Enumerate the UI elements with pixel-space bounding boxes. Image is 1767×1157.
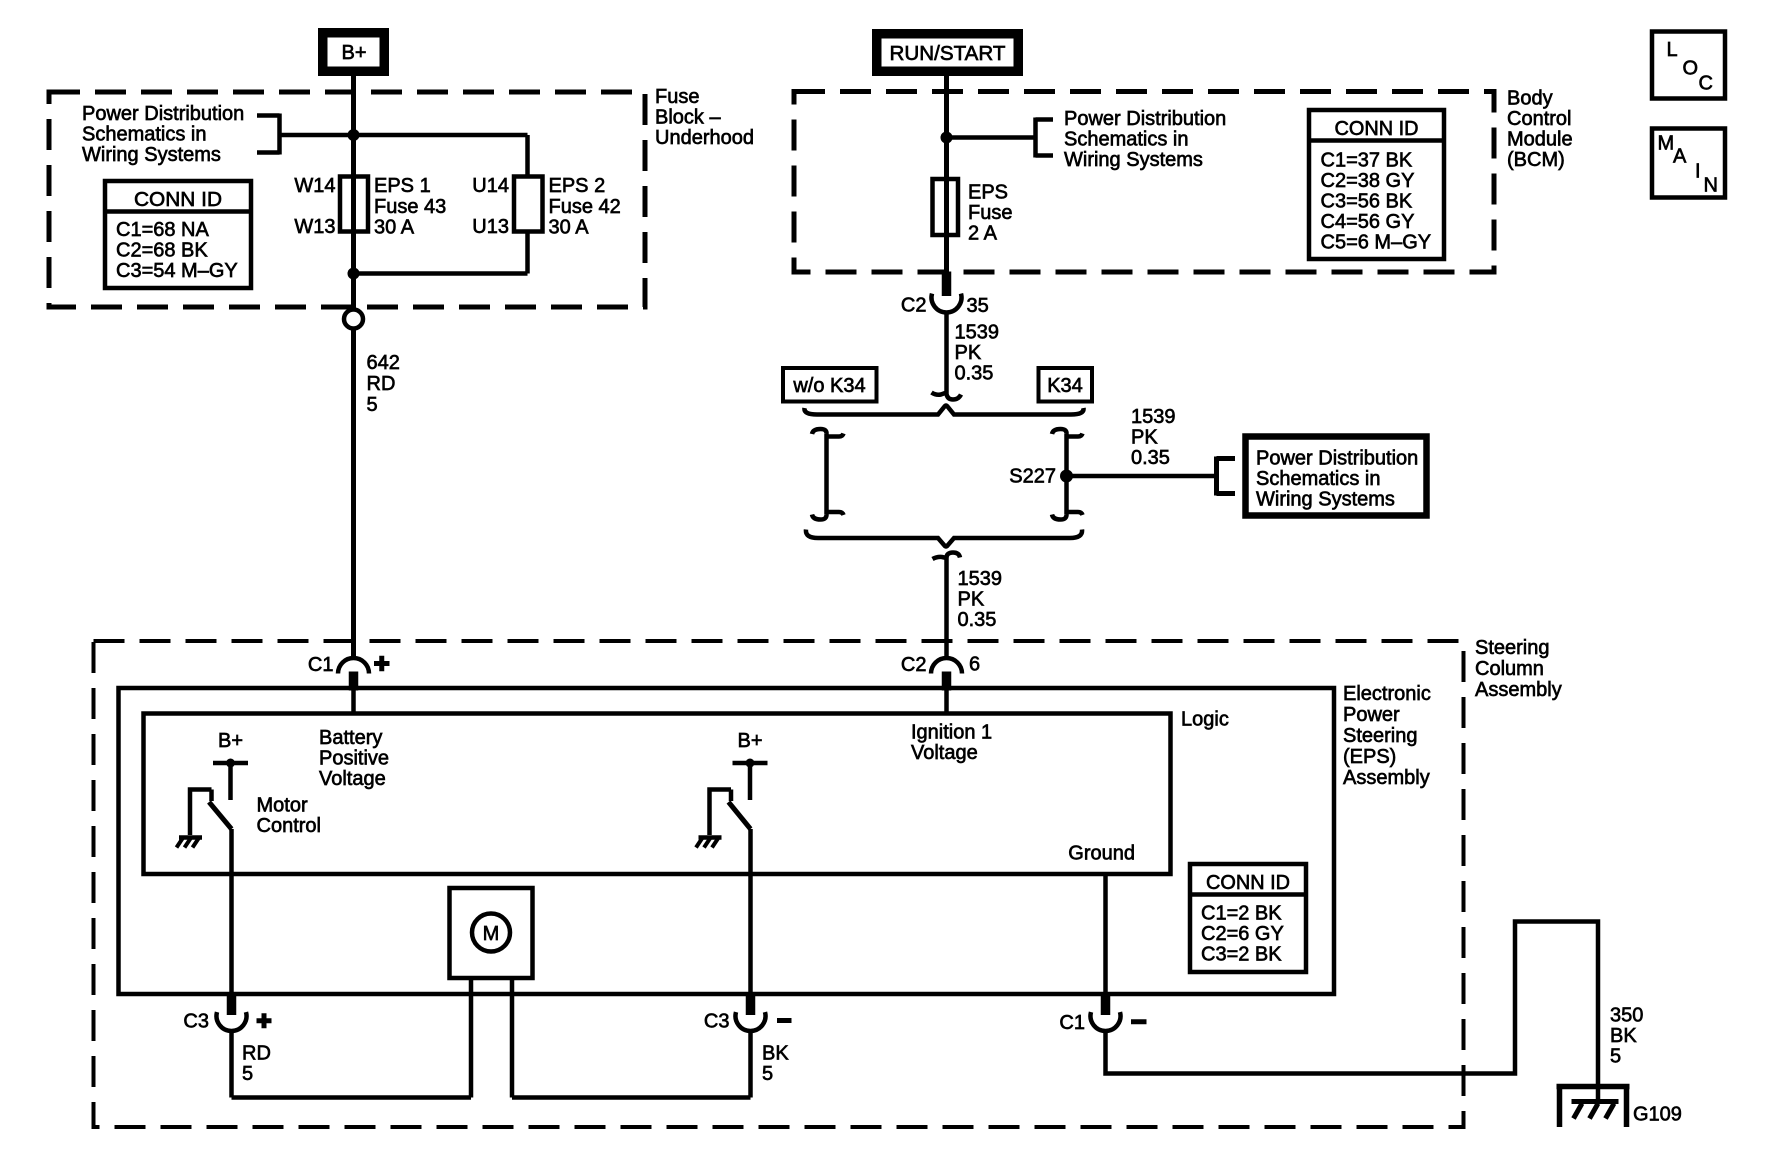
svg-text:PK: PK bbox=[1131, 427, 1158, 449]
power terminal B+ bbox=[318, 28, 389, 76]
svg-text:CONN ID: CONN ID bbox=[1206, 872, 1290, 894]
svg-text:BK: BK bbox=[762, 1043, 789, 1065]
junction at B+ feed bbox=[348, 129, 360, 141]
svg-text:RD: RD bbox=[367, 373, 396, 395]
pin label Ignition 1 Voltage bbox=[911, 722, 992, 765]
svg-text:Fuse 43: Fuse 43 bbox=[374, 196, 446, 218]
svg-text:1539: 1539 bbox=[958, 568, 1003, 590]
svg-text:Power Distribution: Power Distribution bbox=[1256, 448, 1418, 470]
wire label 350 BK 5 bbox=[1610, 1005, 1643, 1068]
svg-text:C1=2 BK: C1=2 BK bbox=[1201, 903, 1282, 925]
svg-text:B+: B+ bbox=[218, 730, 243, 752]
connector C3 - (right) bbox=[704, 995, 792, 1033]
svg-text:Schematics in: Schematics in bbox=[82, 124, 207, 146]
bracket to note (fuse block) bbox=[257, 114, 280, 155]
wire S227 to note bbox=[1067, 474, 1217, 479]
motor control switch (left) bbox=[190, 790, 232, 836]
option tag box w/o K34 bbox=[783, 368, 877, 402]
wire label 1539 PK 0.35 (to EPS) bbox=[958, 568, 1003, 631]
svg-text:Fuse 42: Fuse 42 bbox=[549, 196, 621, 218]
svg-text:CONN ID: CONN ID bbox=[1335, 118, 1419, 140]
svg-text:Underhood: Underhood bbox=[655, 127, 754, 149]
svg-text:35: 35 bbox=[967, 295, 989, 317]
svg-text:C3=56 BK: C3=56 BK bbox=[1321, 191, 1413, 213]
svg-text:Wiring Systems: Wiring Systems bbox=[1256, 489, 1395, 511]
internal B+ terminal (left) bbox=[213, 730, 248, 800]
svg-text:C4=56 GY: C4=56 GY bbox=[1321, 211, 1415, 233]
svg-text:EPS 1: EPS 1 bbox=[374, 175, 431, 197]
option split brace (bottom) bbox=[806, 530, 1082, 547]
svg-text:Schematics in: Schematics in bbox=[1064, 129, 1189, 151]
svg-text:W14: W14 bbox=[294, 175, 335, 197]
option branch w/o K34 (open stub) bbox=[812, 429, 844, 520]
wire label RD 5 bbox=[242, 1043, 271, 1086]
ground G109 bbox=[1557, 1087, 1630, 1128]
svg-text:Control: Control bbox=[1507, 108, 1571, 130]
bracket to note (BCM) bbox=[1036, 118, 1054, 158]
wire left switch to C3 bbox=[229, 829, 234, 995]
svg-text:Assembly: Assembly bbox=[1475, 679, 1562, 701]
svg-text:Power: Power bbox=[1343, 704, 1400, 726]
svg-text:O: O bbox=[1683, 58, 1699, 80]
label Fuse Block Underhood bbox=[655, 86, 754, 149]
fuse EPS Fuse 2A bbox=[933, 179, 959, 235]
value label EPS 1 Fuse 43 30 A bbox=[374, 175, 446, 239]
wire junction to bracket bbox=[947, 135, 1035, 140]
connector C1 + (EPS battery feed) bbox=[308, 654, 390, 691]
svg-text:C5=6 M–GY: C5=6 M–GY bbox=[1321, 232, 1432, 254]
svg-text:C: C bbox=[1699, 73, 1713, 95]
wire bracket to fuses bbox=[280, 133, 528, 138]
note box Power Distribution Schematics (S227) bbox=[1246, 437, 1427, 516]
svg-text:B+: B+ bbox=[341, 42, 366, 64]
svg-text:C2: C2 bbox=[901, 654, 927, 676]
logic block box bbox=[144, 714, 1171, 875]
svg-text:Steering: Steering bbox=[1343, 725, 1418, 747]
svg-text:Positive: Positive bbox=[319, 748, 389, 770]
svg-text:I: I bbox=[1695, 161, 1701, 183]
CONN ID table (EPS) bbox=[1190, 864, 1306, 972]
wire label 642 RD 5 bbox=[367, 352, 400, 416]
svg-text:0.35: 0.35 bbox=[955, 363, 994, 385]
svg-text:CONN ID: CONN ID bbox=[134, 189, 222, 211]
svg-text:C2=38 GY: C2=38 GY bbox=[1321, 170, 1415, 192]
wire right switch to C3 bbox=[748, 829, 753, 995]
svg-text:Steering: Steering bbox=[1475, 637, 1550, 659]
connector C1 - (ground) bbox=[1059, 995, 1146, 1034]
motor M bbox=[450, 888, 533, 978]
LOC page marker box bbox=[1652, 32, 1725, 99]
svg-text:350: 350 bbox=[1610, 1005, 1643, 1027]
internal B+ terminal (right) bbox=[733, 730, 768, 800]
inline connector (circle) on wire 642 bbox=[344, 310, 363, 329]
chassis ground (right switch) bbox=[696, 838, 722, 848]
svg-text:C1=68 NA: C1=68 NA bbox=[116, 219, 209, 241]
svg-text:C3: C3 bbox=[704, 1011, 730, 1033]
svg-text:Ground: Ground bbox=[1068, 843, 1135, 865]
svg-text:5: 5 bbox=[1610, 1046, 1621, 1068]
wire 350 BK to G109 bbox=[1106, 922, 1599, 1102]
value label EPS Fuse 2 A bbox=[968, 182, 1012, 245]
fuse EPS1 Fuse 43 30A bbox=[340, 177, 368, 232]
label Motor Control bbox=[257, 795, 321, 838]
wire motor left lead bbox=[232, 978, 472, 1098]
svg-text:Column: Column bbox=[1475, 658, 1544, 680]
svg-text:5: 5 bbox=[242, 1063, 253, 1085]
splice S227 bbox=[1060, 470, 1073, 483]
svg-text:6: 6 bbox=[969, 654, 980, 676]
svg-text:0.35: 0.35 bbox=[958, 609, 997, 631]
pin label Battery Positive Voltage bbox=[319, 727, 389, 790]
note Power Distribution Schematics (fuse block) bbox=[82, 103, 244, 166]
svg-text:(BCM): (BCM) bbox=[1507, 149, 1565, 171]
svg-text:B+: B+ bbox=[737, 730, 762, 752]
svg-text:Block –: Block – bbox=[655, 107, 721, 129]
svg-text:30 A: 30 A bbox=[374, 217, 415, 239]
svg-text:30 A: 30 A bbox=[549, 217, 590, 239]
svg-text:Electronic: Electronic bbox=[1343, 683, 1431, 705]
svg-text:Logic: Logic bbox=[1181, 709, 1229, 731]
connector C3 + (left) bbox=[183, 995, 271, 1033]
steering column assembly dashed boundary bbox=[94, 641, 1464, 1127]
svg-text:K34: K34 bbox=[1047, 375, 1083, 397]
svg-text:Wiring Systems: Wiring Systems bbox=[1064, 149, 1203, 171]
svg-text:C1: C1 bbox=[308, 654, 334, 676]
option tag box K34 bbox=[1039, 368, 1093, 402]
wire C2 into EPS bbox=[944, 691, 949, 714]
value label EPS 2 Fuse 42 30 A bbox=[549, 175, 621, 239]
svg-text:C3=2 BK: C3=2 BK bbox=[1201, 944, 1282, 966]
svg-text:Voltage: Voltage bbox=[911, 742, 978, 764]
svg-text:U13: U13 bbox=[472, 216, 509, 238]
fuse block dashed boundary bbox=[49, 92, 645, 307]
svg-text:EPS 2: EPS 2 bbox=[549, 175, 606, 197]
svg-text:PK: PK bbox=[958, 589, 985, 611]
option split brace (top) bbox=[804, 406, 1083, 415]
wire label 1539 PK 0.35 (S227) bbox=[1131, 406, 1176, 469]
svg-text:M: M bbox=[1658, 133, 1675, 155]
connector C2 pin 35 (BCM) bbox=[901, 272, 989, 318]
svg-text:G109: G109 bbox=[1633, 1104, 1682, 1126]
wire break symbol bbox=[932, 390, 962, 400]
svg-text:642: 642 bbox=[367, 352, 400, 374]
wire C1 into EPS bbox=[351, 691, 356, 714]
option branch K34 wire bbox=[1052, 429, 1083, 520]
svg-text:RUN/START: RUN/START bbox=[890, 43, 1006, 65]
fuse EPS2 Fuse 42 30A bbox=[514, 177, 543, 232]
svg-text:Power Distribution: Power Distribution bbox=[1064, 108, 1226, 130]
svg-text:N: N bbox=[1704, 175, 1718, 197]
note Power Distribution Schematics (BCM) bbox=[1064, 108, 1226, 171]
svg-text:Battery: Battery bbox=[319, 727, 382, 749]
svg-text:5: 5 bbox=[762, 1063, 773, 1085]
svg-text:C1: C1 bbox=[1059, 1012, 1085, 1034]
svg-text:Body: Body bbox=[1507, 88, 1553, 110]
power terminal RUN/START bbox=[872, 29, 1023, 76]
svg-text:C3: C3 bbox=[183, 1011, 209, 1033]
label Steering Column Assembly bbox=[1475, 637, 1562, 701]
svg-text:Assembly: Assembly bbox=[1343, 767, 1430, 789]
svg-text:W13: W13 bbox=[294, 216, 335, 238]
svg-text:1539: 1539 bbox=[1131, 406, 1176, 428]
svg-text:Fuse: Fuse bbox=[655, 86, 699, 108]
svg-text:C2: C2 bbox=[901, 295, 927, 317]
wire label 1539 PK 0.35 bbox=[955, 322, 1000, 385]
motor control switch (right) bbox=[710, 790, 751, 836]
svg-text:S227: S227 bbox=[1009, 466, 1056, 488]
connector C2 pin 6 (EPS ignition feed) bbox=[901, 654, 980, 691]
CONN ID table (fuse block) bbox=[105, 181, 251, 288]
CONN ID table (BCM) bbox=[1309, 110, 1444, 259]
svg-text:PK: PK bbox=[955, 342, 982, 364]
svg-text:Power Distribution: Power Distribution bbox=[82, 103, 244, 125]
svg-text:Voltage: Voltage bbox=[319, 768, 386, 790]
wire 1539 PK (BCM to split) bbox=[944, 313, 949, 391]
chassis ground (left switch) bbox=[177, 838, 203, 848]
svg-text:L: L bbox=[1667, 39, 1678, 61]
wire 642 RD down to C1 bbox=[351, 330, 356, 659]
svg-text:EPS: EPS bbox=[968, 182, 1008, 204]
wire RUN/START to EPS fuse bbox=[944, 76, 949, 272]
label Electronic Power Steering (EPS) Assembly bbox=[1343, 683, 1431, 789]
svg-text:C2=68 BK: C2=68 BK bbox=[116, 240, 208, 262]
svg-text:C2=6 GY: C2=6 GY bbox=[1201, 923, 1284, 945]
BCM dashed boundary bbox=[794, 92, 1494, 273]
svg-text:5: 5 bbox=[367, 394, 378, 416]
svg-text:w/o K34: w/o K34 bbox=[792, 375, 865, 397]
svg-text:Module: Module bbox=[1507, 129, 1573, 151]
wire 1539 PK to EPS C2 bbox=[944, 562, 949, 659]
svg-text:1539: 1539 bbox=[955, 322, 1000, 344]
svg-text:Motor: Motor bbox=[257, 795, 308, 817]
wire break symbol (below split) bbox=[933, 553, 961, 563]
svg-text:RD: RD bbox=[242, 1043, 271, 1065]
svg-text:C3=54 M–GY: C3=54 M–GY bbox=[116, 260, 238, 282]
junction below fuses bbox=[348, 268, 360, 280]
MAIN page marker box bbox=[1652, 129, 1725, 198]
svg-text:Fuse: Fuse bbox=[968, 202, 1012, 224]
wire ground pin to C1 bbox=[1103, 874, 1108, 995]
svg-text:M: M bbox=[483, 923, 500, 945]
junction at BCM feed bbox=[941, 132, 953, 144]
svg-text:2 A: 2 A bbox=[968, 223, 998, 245]
svg-text:Control: Control bbox=[257, 815, 321, 837]
wire motor right lead bbox=[512, 978, 751, 1098]
svg-text:0.35: 0.35 bbox=[1131, 447, 1170, 469]
svg-text:Ignition 1: Ignition 1 bbox=[911, 722, 992, 744]
wire label BK 5 bbox=[762, 1043, 789, 1086]
svg-text:Wiring Systems: Wiring Systems bbox=[82, 144, 221, 166]
svg-text:(EPS): (EPS) bbox=[1343, 746, 1396, 768]
wire branch to fuse EPS2 bbox=[354, 135, 528, 274]
bracket to note (S227) bbox=[1217, 457, 1236, 496]
label Body Control Module (BCM) bbox=[1507, 88, 1573, 172]
svg-text:Schematics in: Schematics in bbox=[1256, 468, 1381, 490]
wire B+ to fuse EPS1 bbox=[351, 76, 356, 309]
svg-text:U14: U14 bbox=[472, 175, 509, 197]
svg-text:C1=37 BK: C1=37 BK bbox=[1321, 150, 1413, 172]
EPS assembly outer box bbox=[119, 688, 1335, 994]
svg-text:BK: BK bbox=[1610, 1025, 1637, 1047]
svg-text:A: A bbox=[1673, 146, 1687, 168]
